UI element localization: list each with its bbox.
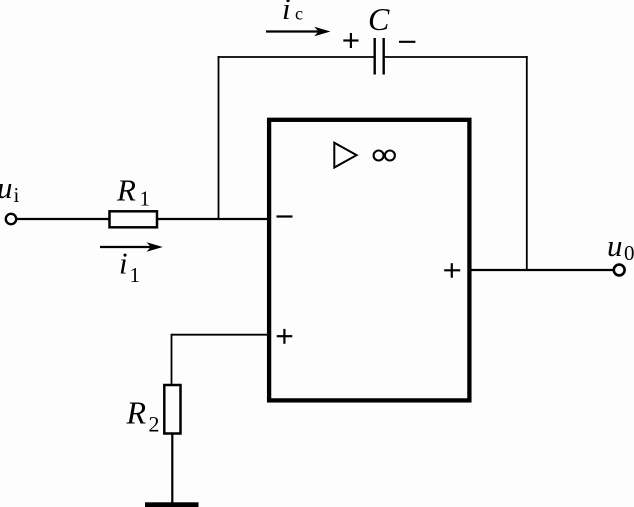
wire output	[470, 269, 614, 271]
resistor R2	[164, 385, 180, 434]
svg-text:1: 1	[140, 187, 151, 211]
op-amp gain infinity symbol	[374, 151, 395, 161]
label i1	[119, 246, 140, 288]
ground	[145, 502, 199, 507]
capacitor C	[375, 38, 384, 75]
label ui	[0, 170, 20, 207]
op-amp inverting input marker -	[277, 215, 293, 217]
svg-text:u: u	[607, 228, 623, 263]
svg-text:c: c	[295, 4, 303, 24]
svg-text:u: u	[0, 170, 13, 205]
label + capacitor polarity	[343, 33, 358, 48]
wire feedback right vertical	[526, 56, 528, 270]
wire feedback top right	[384, 56, 528, 58]
op-amp output marker +	[444, 263, 460, 278]
current arrow i1	[100, 242, 163, 252]
svg-text:i: i	[119, 246, 128, 281]
label - capacitor polarity	[399, 41, 415, 43]
label u0	[607, 228, 634, 265]
svg-text:R: R	[116, 173, 136, 208]
wire R2 to ground	[171, 434, 173, 503]
resistor R1	[110, 211, 158, 227]
svg-text:1: 1	[130, 263, 141, 287]
op-amp U1 box	[269, 120, 469, 401]
svg-text:i: i	[282, 0, 291, 26]
current arrow ic	[266, 27, 331, 37]
label ic	[282, 0, 303, 26]
op-amp non-inverting input marker +	[277, 329, 293, 344]
wire feedback top left	[218, 56, 375, 58]
wire feedback left vertical	[218, 56, 220, 219]
op-amp triangle symbol	[334, 143, 356, 168]
wire non-inverting input	[172, 334, 270, 336]
label R1	[116, 173, 150, 211]
node u0 output terminal	[614, 265, 625, 276]
label R2	[126, 395, 160, 437]
svg-text:R: R	[126, 395, 147, 431]
svg-text:C: C	[368, 1, 390, 37]
node ui input terminal	[6, 214, 16, 224]
svg-text:2: 2	[149, 412, 160, 437]
wire to R2	[171, 334, 173, 385]
svg-text:0: 0	[624, 241, 634, 265]
wire R1 to inverting input	[158, 218, 269, 220]
svg-text:i: i	[14, 183, 20, 207]
wire input to R1	[16, 218, 109, 220]
